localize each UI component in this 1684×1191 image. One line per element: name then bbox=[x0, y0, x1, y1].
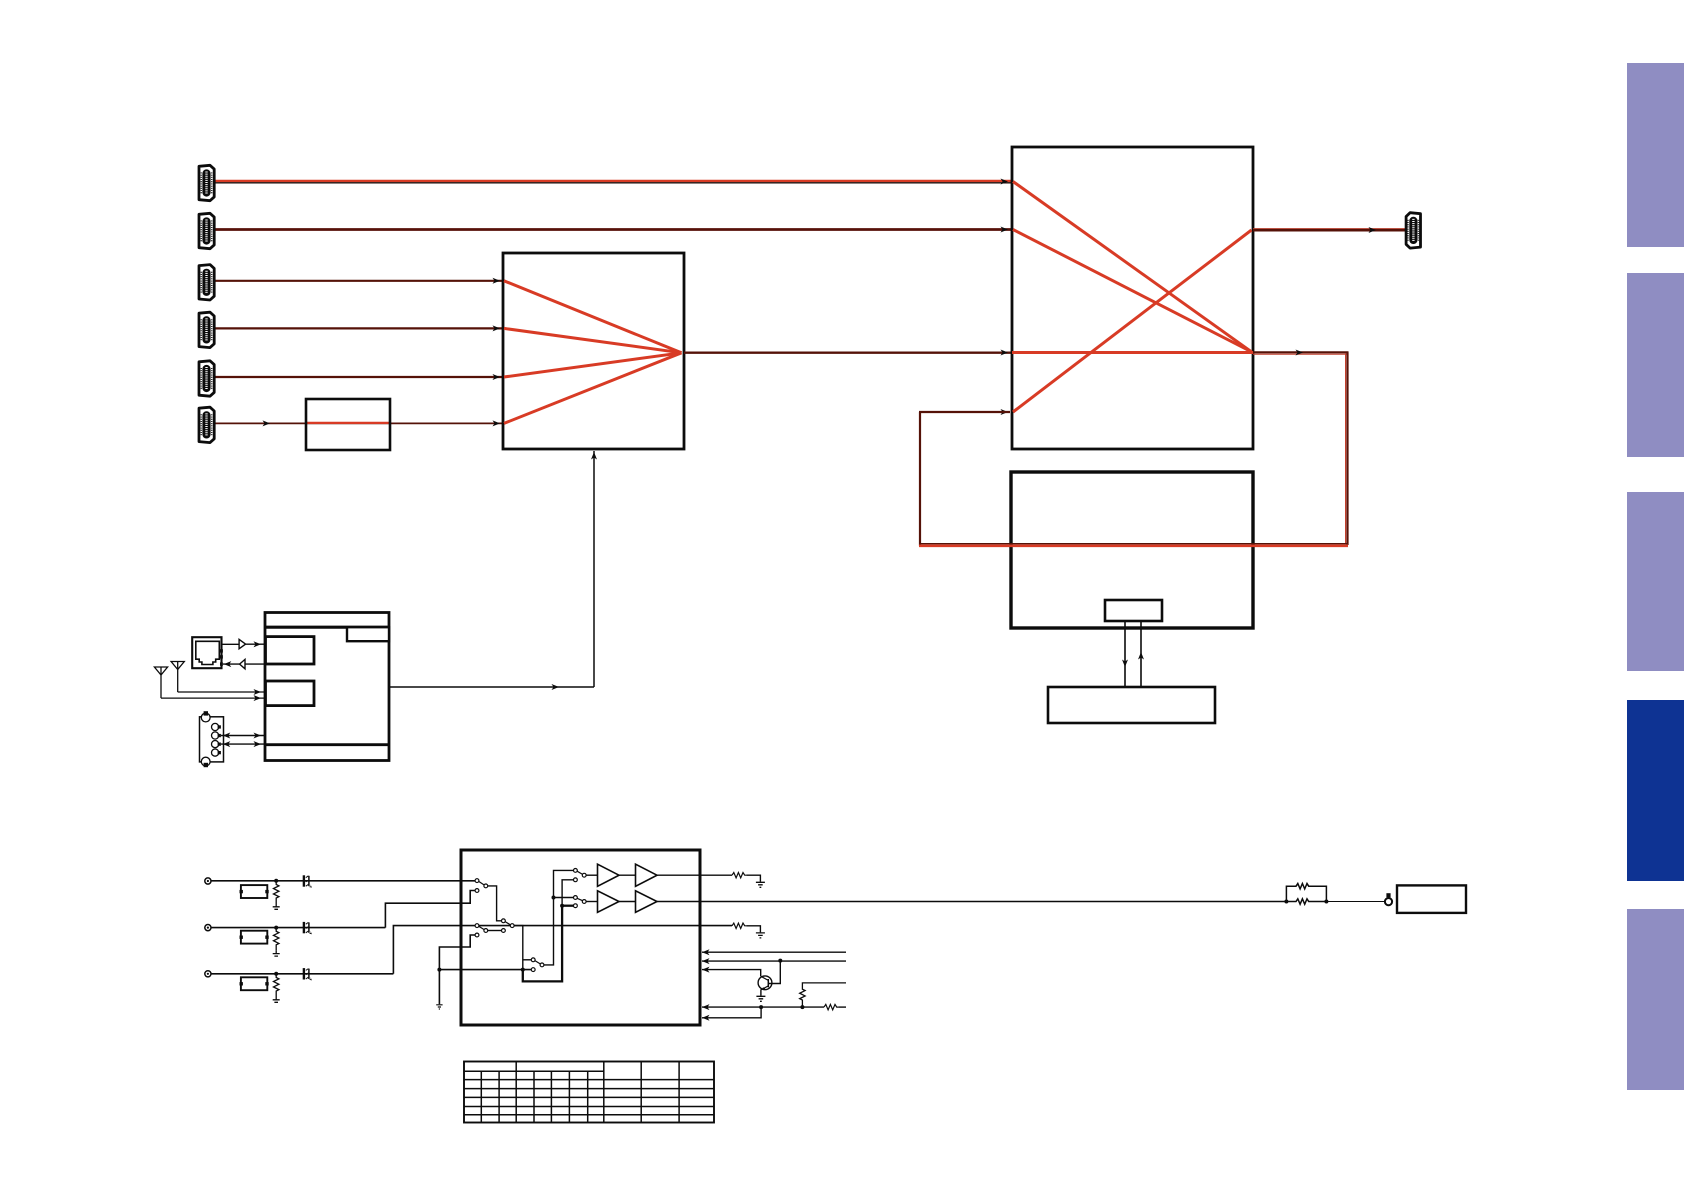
node row1 junction bbox=[274, 879, 278, 883]
wire loop bottom through processor bbox=[919, 543, 1348, 545]
wire HDMI in 1 to switch bbox=[214, 180, 1012, 182]
arrow into repeater in 4 bbox=[493, 325, 501, 331]
wire analog in 3 bbox=[211, 973, 393, 975]
ground rail symbol bbox=[436, 1005, 442, 1009]
side tab 5 bbox=[1627, 909, 1684, 1090]
transistor Q1 bbox=[756, 959, 782, 1002]
red route return to output bbox=[1013, 230, 1252, 412]
wire mute control 1 bbox=[702, 951, 846, 953]
wire HDMI in 4 to repeater bbox=[214, 327, 503, 329]
arrow on control wire bbox=[552, 684, 560, 690]
terminal box bbox=[1397, 885, 1466, 913]
side tab 2 bbox=[1627, 273, 1684, 457]
resistor R3 to ground bbox=[274, 974, 279, 997]
arrow tx into control bbox=[254, 641, 262, 647]
tuner sub box bbox=[266, 681, 315, 706]
wire loop left vertical bbox=[919, 412, 921, 546]
buffer ethernet tx bbox=[222, 643, 240, 645]
switch S4 bbox=[531, 958, 544, 972]
control block U5 bbox=[265, 613, 389, 761]
RCA input jack J10 bbox=[205, 878, 211, 884]
wire loop out right bbox=[1253, 351, 1349, 353]
arrow into repeater in 5 bbox=[493, 374, 501, 380]
muting box row3 bbox=[241, 977, 267, 990]
buffer B1 bbox=[586, 874, 597, 876]
wire switch to HDMI out bbox=[1253, 228, 1406, 230]
wire B2 out to resistor bbox=[657, 874, 732, 876]
ground row1 bbox=[273, 904, 280, 910]
switch S6 bbox=[574, 896, 587, 908]
HDMI connector J3 bbox=[199, 265, 214, 300]
wire control block to vertical bbox=[389, 686, 594, 688]
ground row2 bbox=[273, 950, 280, 956]
wire mute control 2 bbox=[702, 960, 846, 962]
HDMI connector J5 bbox=[199, 361, 214, 396]
arrow into switch in 1 bbox=[1001, 179, 1009, 185]
wire to output jack bbox=[1326, 901, 1385, 903]
input selector box U6 bbox=[461, 850, 700, 1025]
arrow into equalizer box bbox=[263, 420, 271, 426]
HDMI connector J6 bbox=[199, 407, 214, 442]
HDMI connector J1 bbox=[199, 165, 214, 200]
red fan-in line from input 3 bbox=[504, 281, 682, 353]
equalizer box on HDMI in 6 bbox=[306, 399, 390, 450]
parallel resistor R8 top branch bbox=[1286, 884, 1326, 902]
ground under R5 bbox=[756, 933, 765, 938]
resistor R5 bbox=[732, 923, 746, 928]
capacitor C1 bbox=[303, 875, 312, 887]
wire row3 riser bbox=[393, 926, 732, 974]
wire analog output long bbox=[657, 901, 1286, 903]
red route input1 to selected bbox=[1013, 182, 1252, 352]
buffer B4 bbox=[619, 901, 636, 903]
wire riser tap to S6 bbox=[554, 897, 574, 899]
resistor R1 to ground bbox=[274, 881, 279, 904]
resistor R6 bbox=[824, 1004, 838, 1009]
arrow up to processor bbox=[1138, 652, 1144, 660]
red fan-in line from input 5 bbox=[504, 353, 682, 377]
video processor box U3 bbox=[1011, 472, 1253, 628]
ethernet jack J8 bbox=[192, 637, 223, 668]
capacitor C3 bbox=[303, 968, 312, 980]
HDMI repeater box U1 bbox=[503, 253, 684, 449]
wire processor to memory down bbox=[1124, 622, 1126, 687]
node mute tap bbox=[437, 968, 441, 972]
wire memory to processor up bbox=[1140, 622, 1142, 687]
wire mute control 4 bbox=[702, 1006, 824, 1008]
wire resistor to ground bbox=[746, 875, 760, 882]
wire S1 common bbox=[488, 886, 502, 921]
RCA input jack J11 bbox=[205, 925, 211, 931]
switch S1 bbox=[475, 879, 488, 893]
ground under R4 bbox=[756, 882, 765, 887]
wire DIN data 2 bbox=[221, 743, 265, 745]
wire S4 common riser bbox=[544, 870, 573, 965]
node output line left bbox=[1284, 900, 1288, 904]
bypass bold rail bbox=[523, 906, 562, 982]
memory box U4 bbox=[1048, 687, 1215, 723]
HDMI connector J2 bbox=[199, 213, 214, 248]
HDMI connector J4 bbox=[199, 312, 214, 347]
resistor R2 to ground bbox=[274, 928, 279, 951]
red fan-in line from input 4 bbox=[504, 328, 682, 352]
RCA output jack J13 bbox=[1385, 893, 1392, 905]
buffer B2 bbox=[619, 874, 636, 876]
network interface sub box bbox=[266, 637, 315, 664]
wire S3 common down bbox=[514, 926, 523, 982]
RCA input jack J12 bbox=[205, 971, 211, 977]
arrow down to memory bbox=[1122, 660, 1128, 668]
arrow into switch in 2 bbox=[1001, 227, 1009, 233]
muting box row2 bbox=[241, 931, 267, 944]
node output line right bbox=[1324, 900, 1328, 904]
wire analog in 2 bbox=[211, 927, 385, 929]
buffer B3 bbox=[586, 901, 597, 903]
wire S2 common bbox=[488, 930, 502, 932]
buffer ethernet rx bbox=[245, 663, 265, 665]
bypass stub to S6 bbox=[562, 905, 573, 907]
node bypass stub bbox=[560, 904, 564, 908]
arrow on HDMI out wire bbox=[1369, 227, 1377, 233]
wire analog in 1 bbox=[211, 880, 476, 882]
red route repeater input through bbox=[1012, 351, 1253, 354]
antenna A2 bbox=[171, 662, 265, 696]
wire DIN data 1 bbox=[221, 735, 265, 737]
bottom band line bbox=[265, 743, 389, 746]
ground row3 bbox=[273, 997, 280, 1003]
wire HDMI in 2 to switch bbox=[214, 228, 1012, 231]
muting box row1 bbox=[241, 885, 267, 898]
arrow on loop out bbox=[1296, 350, 1304, 356]
wire row2 riser bbox=[385, 891, 475, 928]
wire HDMI in 5 to repeater bbox=[214, 376, 503, 378]
interface sub box inside processor bbox=[1105, 600, 1162, 621]
wire resistor R5 to ground bbox=[746, 926, 760, 933]
HDMI switch box U2 bbox=[1012, 147, 1253, 449]
DIN connector J9 bbox=[200, 711, 224, 767]
side tab 4 bbox=[1627, 700, 1684, 881]
node line5 tap2 bbox=[800, 1005, 804, 1009]
arrow into repeater in 6 bbox=[493, 420, 501, 426]
node row3 junction bbox=[274, 972, 278, 976]
HDMI output connector J7 bbox=[1406, 213, 1420, 248]
wire HDMI in 3 to repeater bbox=[214, 280, 503, 282]
node S4 riser tap bbox=[552, 896, 556, 900]
wire repeater output to switch bbox=[684, 352, 1012, 354]
arrow into switch in 4 bbox=[1001, 409, 1009, 415]
side tab 3 bbox=[1627, 492, 1684, 671]
ground rail vertical bbox=[439, 935, 475, 1004]
capacitor C2 bbox=[303, 922, 312, 934]
resistor R9 in line bbox=[1286, 899, 1326, 904]
header band line bbox=[265, 626, 389, 629]
wire loop right vertical bbox=[1346, 352, 1348, 545]
resistor R7 vertical bbox=[800, 983, 846, 1007]
switch S5 bbox=[574, 869, 587, 882]
red route input2 to selected bbox=[1013, 230, 1252, 352]
wire mute control 5 bbox=[702, 1007, 761, 1018]
antenna A1 bbox=[154, 667, 265, 701]
resistor R4 bbox=[732, 873, 746, 878]
arrow up into repeater bottom bbox=[591, 452, 597, 460]
wire loop into switch return bbox=[919, 411, 1010, 413]
node row2 junction bbox=[274, 926, 278, 930]
switch S2 bbox=[475, 924, 488, 937]
arrow into switch in 3 bbox=[1001, 350, 1009, 356]
wire control to repeater vertical bbox=[593, 451, 595, 687]
wire HDMI in 6 to repeater bbox=[214, 422, 503, 424]
red fan-in line from input 6 bbox=[504, 353, 682, 424]
side tab 1 bbox=[1627, 63, 1684, 247]
wire S3 to S4 upper bbox=[523, 959, 532, 961]
HDMI input connectors J1-J6 bbox=[199, 165, 214, 442]
wire mute control 3 bbox=[702, 970, 761, 977]
arrow into repeater in 3 bbox=[493, 278, 501, 284]
wire mute rail to switch bbox=[439, 969, 533, 971]
switch S3 bbox=[502, 919, 515, 933]
node line5 tap1 bbox=[759, 1005, 763, 1009]
node bypass tap bbox=[521, 968, 525, 972]
top right sub box bbox=[347, 627, 389, 641]
arrow rx into jack bbox=[224, 661, 232, 667]
